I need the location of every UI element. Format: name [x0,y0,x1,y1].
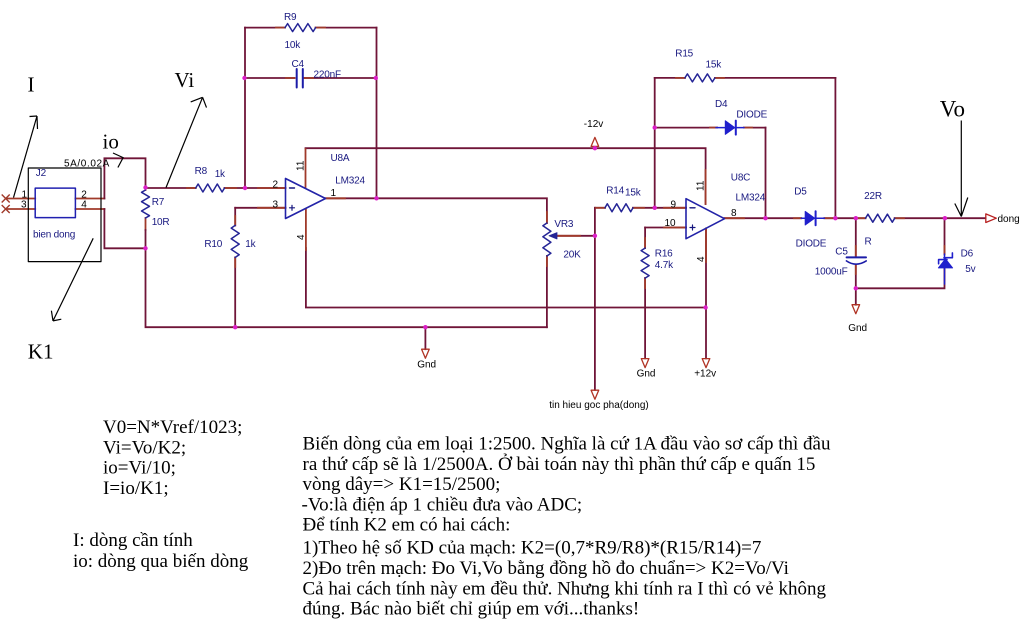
svg-text:10k: 10k [285,40,302,51]
wire U8C output row to dong port [725,217,802,219]
wire R16 top lead [644,228,646,249]
wire U8C pin10 to R16 [645,227,686,229]
wire VR3 wiper to R14 junction [553,235,595,237]
node U8C pin9 junction [653,206,657,210]
annotation arrows [14,97,968,321]
resistor R10 [231,225,239,257]
wire Gnd drop on ground rail [424,327,426,349]
lead R15 [676,77,685,79]
svg-text:1k: 1k [245,239,256,250]
wire feedback right vertical [376,28,378,199]
svg-text:J2: J2 [36,168,47,179]
node C4 right [374,76,378,80]
lead R8 [187,187,196,189]
svg-text:4.7k: 4.7k [655,260,674,271]
svg-text:-Vo:là điện áp 1 chiều đưa vào: -Vo:là điện áp 1 chiều đưa vào ADC; [302,494,583,515]
svg-text:io: dòng qua biến dòng: io: dòng qua biến dòng [73,551,249,572]
wire U8A pin3 to R10 [235,207,285,209]
pin stub U8A pin2 [258,187,286,189]
svg-text:Biến dòng của em loại 1:2500.: Biến dòng của em loại 1:2500. Nghĩa là c… [303,433,831,454]
svg-text:4: 4 [696,256,707,262]
svg-text:11: 11 [696,180,707,191]
wire R15 row [655,77,685,79]
svg-text:220nF: 220nF [314,70,341,81]
svg-text:R15: R15 [675,49,693,60]
zener diode D6 [938,253,952,284]
port dong [986,214,997,223]
node Gnd tap ground rail [423,325,427,329]
svg-text:D5: D5 [794,187,807,198]
wire U8C pin4 down to +12v [705,229,707,359]
svg-text:DIODE: DIODE [796,239,827,250]
wire D4 row [655,127,717,129]
lead 22R [857,217,866,219]
node R10 at ground rail [233,325,237,329]
svg-text:2: 2 [273,179,279,190]
resistor R16 [641,248,649,278]
svg-text:D4: D4 [715,99,728,110]
node D4 tap on R15 vertical [653,125,657,129]
wire feedback left vertical [244,28,246,188]
wire Gnd drop below C5 [855,288,857,304]
svg-text:-12v: -12v [584,119,603,130]
svg-text:Vi: Vi [175,68,195,92]
lead R9 [276,27,285,29]
svg-text:5v: 5v [965,264,975,275]
pin stub U8C pin9 [664,207,686,209]
svg-text:U8A: U8A [331,153,350,164]
svg-text:I=io/K1;: I=io/K1; [103,478,169,499]
svg-text:R8: R8 [195,166,208,177]
svg-text:Vi=Vo/K2;: Vi=Vo/K2; [103,437,186,458]
resistor R14 [605,204,633,212]
lead C4 [286,77,295,79]
pin stub U8C pin8 [725,217,745,219]
wire io loop bottom [104,209,145,248]
pin stubs (brick red) [146,28,945,288]
svg-text:R10: R10 [204,239,222,250]
arrow for label Vo [955,121,968,217]
wire R10 top lead [234,208,236,226]
svg-text:LM324: LM324 [736,193,766,204]
power symbol tin hieu goc pha [591,390,599,399]
capacitor C4 plates [297,69,303,88]
wire R15 left vertical [654,78,656,208]
pin stub U8C pin11 [705,170,707,204]
wire node Vi : R7 to R8 to U8A pin2 [146,187,196,189]
wire io-loop left pins J2 external stubs [6,199,105,210]
wire D6 top lead [944,218,946,254]
svg-text:DIODE: DIODE [736,110,767,121]
resistor R9 [285,24,316,32]
wire U8A output to VR3 top [326,198,547,223]
ground symbol below C5 [852,305,860,314]
svg-text:20K: 20K [563,250,581,261]
svg-text:C4: C4 [292,59,305,70]
svg-text:8: 8 [731,208,737,219]
svg-text:R14: R14 [606,186,624,197]
pin stub U8A pin3 [258,207,286,209]
svg-text:1: 1 [331,188,337,199]
lead R7 [145,188,147,191]
wire R14 leads [595,207,605,209]
node D5 to R15 junction [833,216,837,220]
node R7 bottom junction [143,246,147,250]
svg-text:Gnd: Gnd [637,369,656,380]
arrow for label I [14,116,38,198]
wire tin-hieu vertical [594,208,596,390]
power symbol -12v [591,137,599,146]
wire U8A pin4 to +12v rail [306,248,706,308]
diode D5 [801,211,824,225]
svg-text:22R: 22R [864,191,882,202]
svg-text:đúng. Bác nào biết chỉ giúp em: đúng. Bác nào biết chỉ giúp em với...tha… [303,599,640,620]
svg-text:ra thứ cấp sẽ là 1/2500A. Ở bà: ra thứ cấp sẽ là 1/2500A. Ở bài toán này… [303,453,816,475]
resistor R8 [196,184,225,192]
svg-text:11: 11 [296,160,307,171]
wire bottom-right rail C5 to D6 [856,269,945,288]
node U8A output feedback [374,196,378,200]
node R7 top junction [143,185,147,189]
node C4 left [242,76,246,80]
svg-text:vòng dây=> K1=15/2500;: vòng dây=> K1=15/2500; [303,474,501,495]
svg-text:9: 9 [671,199,677,210]
wire D4 output vertical to U8C pin8 [765,128,767,219]
power symbol +12v [702,359,710,368]
svg-text:10: 10 [665,218,677,229]
op-amp U1 U8A triangle [286,179,326,219]
resistor R15 [685,74,715,82]
svg-text:15k: 15k [625,188,642,199]
wire R7 down to ground rail [146,248,547,327]
wire io loop top [104,158,145,198]
wire io loop and main nets [104,28,985,390]
svg-text:Cả hai cách tính này em đều th: Cả hai cách tính này em đều thử. Nhưng k… [303,579,827,600]
pin stub U8A pin4 [305,209,307,250]
node C5 bottom junction [854,286,858,290]
svg-text:I: I [28,72,35,96]
svg-text:K1: K1 [28,339,54,363]
lead R10 [234,216,236,225]
node -12v attach [593,146,597,150]
svg-text:bien dong: bien dong [33,230,75,241]
svg-text:Gnd: Gnd [417,359,436,370]
resistor R7 [142,190,150,218]
wire R9 top row [245,27,285,29]
svg-text:3: 3 [273,199,279,210]
wire VR3 bottom [546,256,548,327]
no-connect x mark pin1 [2,195,9,213]
lead VR3 wiper [553,235,580,237]
svg-text:tin hieu goc pha(dong): tin hieu goc pha(dong) [549,400,649,411]
svg-text:Vo: Vo [940,97,965,122]
wire C5 bottom lead [855,266,857,289]
node feedback left at input [243,186,247,190]
svg-text:1)Theo hệ số KD của mạch: K2=(: 1)Theo hệ số KD của mạch: K2=(0,7*R9/R8)… [303,538,762,559]
svg-text:I: dòng cần tính: I: dòng cần tính [73,530,193,551]
svg-text:U8C: U8C [731,173,750,184]
no-connect x mark pin3 [2,206,9,213]
svg-text:2)Đo trên mạch: Đo Vi,Vo bằng: 2)Đo trên mạch: Đo Vi,Vo bằng đồng hồ đo… [303,558,789,579]
op-amp U8C minus input mark [690,207,695,209]
svg-text:R: R [865,237,872,248]
lead D5 [794,217,801,219]
arrow for label Vi [166,97,207,187]
potentiometer VR3 body [543,223,551,256]
wire R16 bottom to Gnd [644,278,646,358]
svg-text:10R: 10R [152,217,170,228]
svg-text:C5: C5 [835,247,848,258]
node VR3 wiper junction [593,234,597,238]
svg-text:LM324: LM324 [335,176,365,187]
node U8C pin8 output junction [763,216,767,220]
lead R14 [596,207,605,209]
wire C4 row [245,77,295,79]
svg-text:VR3: VR3 [554,219,573,230]
wire R10 bottom to ground rail [234,257,236,327]
svg-text:3: 3 [21,200,27,211]
svg-text:R7: R7 [152,197,165,208]
svg-text:4: 4 [296,234,307,240]
arrow for label K1 [51,238,93,321]
svg-text:1k: 1k [215,169,226,180]
op-amp U8A minus input mark [290,187,295,189]
diode D4 [716,121,744,135]
wire C5 top lead [855,218,857,256]
svg-text:5A/0.02A: 5A/0.02A [64,159,110,170]
pin stub U8A pin1 output [326,197,346,199]
op-amp U2 U8C triangle [686,199,725,239]
svg-text:dong: dong [998,214,1020,225]
svg-text:15k: 15k [706,60,723,71]
svg-text:D6: D6 [961,249,974,260]
pin stub U8C pin10 [664,227,686,229]
lead D6 [944,246,946,255]
svg-text:Gnd: Gnd [848,323,867,334]
op-amp U8A plus input mark [290,205,295,210]
svg-text:R16: R16 [655,249,673,260]
lead R16 [644,238,646,248]
arrow for label io [113,153,123,168]
wire R15 right vertical down to output [834,78,836,218]
pin stub U8C pin4 [705,229,707,263]
capacitor C5 polarized plates [846,257,866,264]
svg-text:io: io [103,130,119,154]
potentiometer VR3 wiper arrow [549,233,557,239]
resistor 22R [866,214,895,222]
connector J2 inner body [35,188,75,218]
svg-text:4: 4 [81,200,87,211]
node C5 tap [854,216,858,220]
svg-text:V0=N*Vref/1023;: V0=N*Vref/1023; [103,417,242,438]
lead C5 [855,246,857,256]
ground symbol at ground rail [422,349,430,358]
svg-text:R9: R9 [284,12,297,23]
node +12v junction [703,305,707,309]
ground symbol below R16 [641,359,649,368]
connector J2 outer box [28,168,101,262]
op-amp U8C plus input mark [690,225,695,230]
svg-text:+12v: +12v [694,369,716,380]
svg-text:1000uF: 1000uF [815,266,848,277]
svg-text:io=Vi/10;: io=Vi/10; [103,458,176,479]
node D6 tap [943,216,947,220]
wire -12v rail U8A pin11 to U8C pin11 [306,148,706,204]
pin stub U8A pin11 [305,149,307,188]
svg-text:Để tính K2 em có hai cách:: Để tính K2 em có hai cách: [303,514,511,535]
lead D4 [710,127,717,129]
lead VR3 [546,212,548,223]
